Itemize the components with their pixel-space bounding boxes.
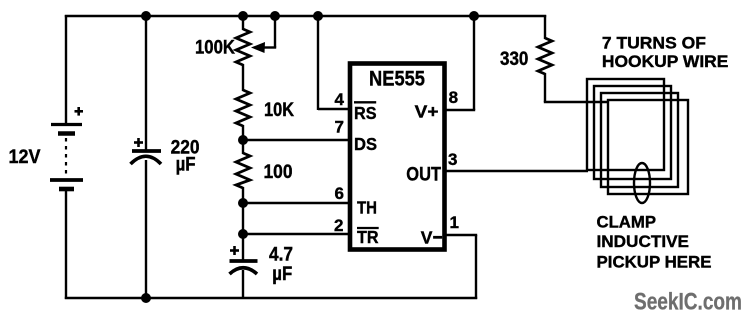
- svg-text:7 TURNS OF: 7 TURNS OF: [602, 33, 706, 52]
- op-amp U1 NE555 box: [350, 64, 445, 250]
- svg-text:12V: 12V: [9, 147, 41, 168]
- R1 wiper arrow: [274, 15, 276, 48]
- svg-text:µF: µF: [176, 155, 196, 176]
- capacitor C2 4.7uF: [230, 259, 258, 263]
- svg-text:330: 330: [500, 49, 528, 70]
- svg-text:4.7: 4.7: [269, 245, 293, 266]
- resistor R2 10K: [236, 90, 250, 126]
- svg-text:4: 4: [335, 90, 345, 109]
- wire pot to 10K: [242, 64, 244, 91]
- svg-text:RS: RS: [354, 103, 377, 123]
- wire battery bottom lead: [65, 191, 67, 299]
- wire 100 to C2: [242, 187, 244, 261]
- svg-text:6: 6: [335, 184, 344, 203]
- wire pot top lead: [242, 15, 244, 30]
- node dot top rail / wiper: [270, 11, 280, 21]
- svg-text:CLAMP: CLAMP: [597, 213, 657, 232]
- wire 10K to 100: [242, 125, 244, 154]
- wire 220uF branch: [145, 15, 147, 151]
- node dot top rail / pot: [238, 11, 248, 21]
- svg-text:8: 8: [449, 88, 458, 107]
- wire pin3 OUT to coil: [444, 170, 588, 172]
- node dot top rail / pin4: [313, 11, 323, 21]
- wire 330 to coil: [544, 73, 546, 102]
- inductor L1 coil turn 4: [608, 100, 688, 194]
- svg-text:HOOKUP WIRE: HOOKUP WIRE: [602, 52, 729, 71]
- svg-text:µF: µF: [272, 264, 292, 285]
- svg-text:SeekIC.com: SeekIC.com: [634, 289, 742, 316]
- svg-text:7: 7: [335, 118, 344, 137]
- wire battery top lead: [65, 15, 67, 124]
- resistor R3 100: [236, 153, 250, 188]
- svg-text:1: 1: [450, 213, 459, 232]
- svg-text:V+: V+: [415, 102, 439, 122]
- C1 plus sign: [134, 138, 143, 147]
- inductor L1 coil turn 2: [594, 86, 671, 179]
- wire pin8 V+: [444, 109, 475, 111]
- battery B1 12V: [50, 125, 83, 190]
- clamp ellipse: [634, 163, 650, 203]
- svg-text:DS: DS: [354, 134, 377, 154]
- svg-text:PICKUP HERE: PICKUP HERE: [597, 253, 712, 272]
- wire pin1 V- to bottom rail: [444, 234, 477, 236]
- wire C2 to bottom rail: [242, 270, 244, 299]
- inductor L1 coil turn 1: [587, 79, 664, 170]
- svg-text:OUT: OUT: [406, 164, 441, 185]
- svg-text:2: 2: [334, 216, 343, 235]
- node dot top rail / pin8: [469, 11, 479, 21]
- potentiometer R1 100K: [236, 29, 250, 65]
- node dot bottom rail / C1: [141, 293, 151, 303]
- node dot TR junction: [238, 229, 248, 239]
- battery plus sign: [75, 107, 84, 116]
- wire 330 branch: [544, 15, 546, 39]
- svg-text:10K: 10K: [264, 100, 294, 121]
- node dot DS junction: [238, 135, 248, 145]
- wire pin4 RS: [317, 15, 319, 110]
- wire top rail: [65, 15, 546, 17]
- svg-text:100: 100: [264, 162, 293, 183]
- wire pin6 TH: [243, 202, 350, 204]
- svg-text:TH: TH: [357, 197, 377, 217]
- svg-text:100K: 100K: [195, 38, 235, 59]
- inductor L1 coil turn 3: [601, 93, 678, 187]
- svg-text:NE555: NE555: [369, 68, 425, 91]
- node dot TH junction: [238, 198, 248, 208]
- wire bottom rail: [65, 297, 477, 299]
- resistor R4 330: [538, 38, 552, 74]
- node dot top rail / C1: [141, 11, 151, 21]
- svg-text:3: 3: [448, 150, 457, 169]
- svg-text:V: V: [421, 227, 433, 247]
- C2 plus sign: [230, 246, 239, 255]
- capacitor C1 220uF: [132, 149, 161, 153]
- wire pin7 DS: [243, 139, 350, 141]
- svg-text:TR: TR: [357, 227, 379, 247]
- wire pin2 TR: [243, 233, 350, 235]
- svg-text:INDUCTIVE: INDUCTIVE: [597, 232, 690, 251]
